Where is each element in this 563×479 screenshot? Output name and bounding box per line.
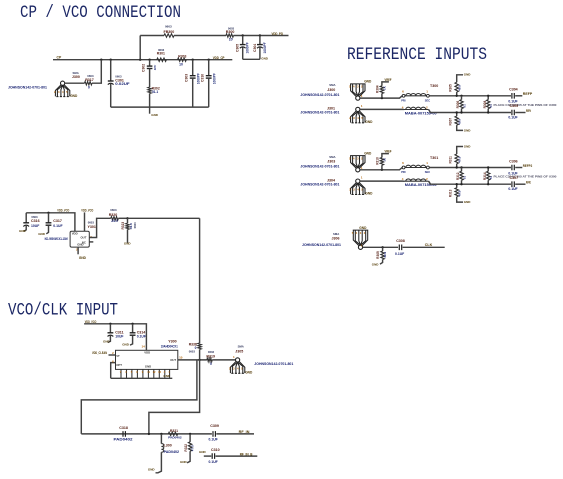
- svg-text:OPT: OPT: [116, 363, 122, 367]
- junction bottom rail at R312: [460, 183, 462, 185]
- resistor R321 (series): [168, 432, 177, 435]
- svg-text:C308: C308: [396, 239, 405, 243]
- svg-text:0.1UF: 0.1UF: [395, 252, 404, 256]
- svg-text:14: 14: [142, 345, 146, 349]
- wire RF_IN_B output: [204, 455, 212, 457]
- svg-text:JOHNSON142-0701-801: JOHNSON142-0701-801: [300, 111, 339, 115]
- svg-text:R321: R321: [170, 429, 178, 433]
- capacitor C311: [109, 324, 111, 333]
- svg-text:GND: GND: [464, 128, 472, 132]
- svg-text:GND: GND: [364, 151, 372, 155]
- svg-text:VDD_CLEAN: VDD_CLEAN: [92, 351, 107, 355]
- svg-text:SMA: SMA: [238, 344, 244, 348]
- junction at R309 tap: [381, 246, 383, 248]
- wire oscillator line to VCO section: [128, 217, 200, 219]
- svg-text:J303: J303: [327, 160, 335, 164]
- svg-text:VREF: VREF: [385, 78, 392, 82]
- capacitor C308 (series): [399, 245, 401, 251]
- junction top rail at R305: [456, 95, 458, 97]
- svg-text:R306: R306: [456, 101, 460, 109]
- IC Y300 box: [116, 350, 178, 369]
- svg-text:47.5: 47.5: [191, 445, 195, 451]
- resistor R308 (across rails): [487, 96, 489, 100]
- wire VDD_VCO rail (VCO section): [84, 324, 146, 351]
- svg-text:OUT: OUT: [81, 235, 87, 239]
- wire J300 pin1 to transformer: [360, 96, 402, 98]
- svg-text:C306: C306: [509, 159, 518, 163]
- svg-text:R310: R310: [376, 157, 380, 165]
- svg-text:T301: T301: [430, 156, 438, 160]
- wire upper branch rail middle: [174, 35, 226, 37]
- svg-text:PLACE C304/C305 AT THE PINS OF: PLACE C304/C305 AT THE PINS OF U300: [494, 104, 558, 107]
- wire R302 to bottom rail and ground stub: [149, 94, 151, 114]
- svg-text:GND: GND: [464, 144, 472, 148]
- wire OUT node down-left path B: [149, 360, 200, 434]
- junction on CP rail at top-branch riser: [139, 59, 141, 61]
- junction at OUT node: [198, 359, 200, 361]
- wire J300 pin1 to R317: [65, 82, 85, 84]
- wire C302 to R302: [149, 69, 151, 88]
- wire J301 pin1 to transformer: [360, 108, 404, 110]
- svg-text:0603: 0603: [133, 222, 137, 228]
- svg-text:51: 51: [462, 176, 466, 180]
- svg-text:JOHNSON142-0701-801: JOHNSON142-0701-801: [302, 243, 341, 247]
- resistor R319: [207, 358, 212, 361]
- resistor R317: [85, 82, 92, 85]
- svg-text:R312: R312: [456, 172, 460, 180]
- wire second VDD_VCO feed: [84, 212, 86, 231]
- svg-text:KD-9500MCX1-13M: KD-9500MCX1-13M: [45, 237, 68, 241]
- svg-text:JOHNSON142-0701-801: JOHNSON142-0701-801: [300, 182, 339, 186]
- junction bottom rail at R313: [456, 183, 458, 185]
- resistor R310 (bias): [381, 165, 383, 170]
- svg-text:R313: R313: [449, 189, 453, 197]
- svg-text:C309: C309: [210, 424, 219, 428]
- svg-text:0.1UF: 0.1UF: [508, 100, 517, 104]
- svg-text:REFERENCE INPUTS: REFERENCE INPUTS: [347, 45, 487, 65]
- svg-text:GND: GND: [148, 467, 156, 471]
- resistor R302: [148, 87, 151, 93]
- svg-text:10UF: 10UF: [31, 224, 39, 228]
- svg-text:J306: J306: [332, 237, 340, 241]
- svg-text:JOHNSON142-0701-801: JOHNSON142-0701-801: [300, 165, 339, 169]
- svg-text:51.1: 51.1: [152, 90, 158, 94]
- svg-text:VCO/CLK INPUT: VCO/CLK INPUT: [8, 301, 118, 321]
- svg-text:R300: R300: [226, 30, 235, 34]
- svg-text:GND: GND: [464, 200, 472, 204]
- svg-text:T300: T300: [430, 84, 438, 88]
- svg-text:OUT: OUT: [170, 358, 176, 362]
- wire OUT node down-left path A: [81, 360, 197, 434]
- svg-text:0.1UF: 0.1UF: [508, 116, 517, 120]
- capacitor C314: [132, 324, 134, 333]
- resistor R301 (series on CP rail): [157, 58, 167, 61]
- resistor R304 (bias): [381, 94, 383, 99]
- svg-text:C318: C318: [119, 426, 128, 430]
- svg-text:GND: GND: [145, 364, 151, 368]
- junction on CP rail at C310: [208, 59, 210, 61]
- junction on CP rail at C301: [110, 59, 112, 61]
- transformer T300: [402, 94, 405, 97]
- svg-text:0603: 0603: [165, 25, 172, 29]
- resistor R300: [226, 34, 233, 37]
- svg-text:0.1UF: 0.1UF: [137, 335, 146, 339]
- svg-text:GND: GND: [38, 232, 46, 236]
- junction at C304 tap: [259, 34, 261, 36]
- svg-text:GND: GND: [122, 342, 130, 346]
- svg-text:GND: GND: [70, 94, 78, 98]
- wire CP section ground rail: [111, 106, 209, 108]
- svg-text:GND: GND: [77, 243, 83, 247]
- svg-text:24.9: 24.9: [111, 219, 118, 223]
- wire VDD_VCO rail (oscillator): [26, 213, 75, 231]
- svg-text:Y301: Y301: [88, 225, 96, 229]
- wire J304 pin1 to transformer: [360, 180, 404, 182]
- svg-text:R305: R305: [449, 84, 453, 92]
- junction at L300 tap: [160, 433, 162, 435]
- wire ground bracket under Y300: [111, 377, 173, 379]
- svg-text:R319: R319: [206, 355, 215, 359]
- svg-text:C316: C316: [31, 219, 40, 223]
- svg-text:R320: R320: [109, 213, 118, 217]
- svg-text:1000PF: 1000PF: [246, 42, 250, 53]
- svg-text:VDD_VCO: VDD_VCO: [57, 207, 69, 212]
- svg-text:VDD: VDD: [72, 231, 78, 235]
- svg-text:0.02UF: 0.02UF: [115, 82, 129, 86]
- svg-text:C307: C307: [510, 176, 519, 180]
- resistor R309 (to ground): [382, 247, 384, 251]
- svg-text:0603: 0603: [208, 350, 215, 354]
- connector J300 (SMA, CP input): [61, 81, 65, 85]
- junction top rail at R312: [460, 166, 462, 168]
- wire Y300 OUT to J305: [178, 359, 207, 361]
- capacitor C307 (series, bottom): [512, 181, 514, 187]
- svg-text:J305: J305: [235, 349, 243, 353]
- svg-text:J300: J300: [327, 88, 335, 92]
- svg-text:0603: 0603: [189, 350, 196, 354]
- connector J300 (SMA, shell up): [356, 96, 360, 100]
- svg-text:VREF: VREF: [385, 150, 392, 154]
- transformer T301: [402, 166, 405, 169]
- wire bottom rail: [429, 181, 511, 184]
- svg-text:GND: GND: [364, 80, 372, 84]
- svg-text:VDD_PD: VDD_PD: [272, 31, 284, 36]
- svg-text:FB300: FB300: [164, 30, 175, 34]
- wire top rail: [429, 95, 511, 97]
- junction bottom rail at R307: [456, 111, 458, 113]
- svg-text:GND: GND: [464, 73, 472, 77]
- svg-text:GND: GND: [261, 57, 269, 61]
- svg-text:0.1UF: 0.1UF: [508, 171, 517, 175]
- svg-text:R314: R314: [483, 172, 487, 180]
- resistor R320: [111, 217, 119, 220]
- svg-text:REFN: REFN: [526, 109, 531, 113]
- svg-text:SMA: SMA: [333, 232, 339, 236]
- resistor R305 (top to GND): [456, 92, 458, 96]
- junction at R322 tap: [189, 433, 191, 435]
- svg-text:C317: C317: [53, 219, 62, 223]
- wire bottom rail: [429, 110, 511, 113]
- capacitor C310 output (series): [212, 453, 214, 459]
- svg-text:C310: C310: [201, 74, 205, 82]
- svg-text:51: 51: [489, 176, 493, 180]
- svg-text:C303: C303: [185, 74, 189, 82]
- connector J303 (SMA, shell up): [356, 168, 360, 172]
- svg-text:51: 51: [489, 104, 493, 108]
- svg-text:10: 10: [179, 62, 183, 66]
- junction at path-B drop: [148, 433, 150, 435]
- capacitor C309 (series): [213, 431, 215, 437]
- svg-text:CP / VCO CONNECTION: CP / VCO CONNECTION: [20, 3, 181, 23]
- capacitor C304 (series, top): [512, 93, 514, 99]
- svg-text:SMA: SMA: [329, 155, 335, 159]
- svg-text:PRI: PRI: [401, 170, 406, 174]
- wire J306 pin1 to C308: [363, 246, 398, 248]
- wire R320 to junction: [118, 217, 127, 219]
- svg-text:49.9: 49.9: [458, 85, 462, 91]
- wire riser to upper branch: [139, 36, 141, 60]
- oscillator Y301 box: [70, 231, 89, 247]
- svg-text:49.9: 49.9: [458, 190, 462, 196]
- svg-text:SEC: SEC: [425, 170, 430, 174]
- svg-text:GND: GND: [365, 192, 373, 196]
- oscillator NC stub: [89, 241, 93, 243]
- svg-text:PAD0402: PAD0402: [164, 450, 180, 454]
- resistor R306 (across rails): [461, 96, 463, 100]
- wire ground bar under C305/C304: [243, 58, 260, 60]
- svg-text:GND: GND: [124, 241, 131, 245]
- svg-text:VDD: VDD: [144, 350, 150, 354]
- svg-text:PAD0402: PAD0402: [114, 437, 133, 441]
- junction top rail at R306: [460, 95, 462, 97]
- svg-text:C310: C310: [211, 448, 220, 452]
- svg-text:0.1UF: 0.1UF: [53, 224, 62, 228]
- wire CP main rail: [53, 59, 232, 61]
- svg-text:RF_IN: RF_IN: [239, 430, 250, 434]
- svg-text:C305: C305: [236, 44, 240, 52]
- svg-text:VDD_VCO: VDD_VCO: [81, 207, 93, 212]
- svg-text:0.1UF: 0.1UF: [209, 460, 218, 464]
- svg-text:VDD_VCO: VDD_VCO: [85, 319, 97, 324]
- svg-text:VDD_CP: VDD_CP: [213, 55, 225, 60]
- resistor R322 (to ground): [189, 434, 191, 442]
- svg-text:J300: J300: [72, 75, 80, 79]
- capacitor C301: [110, 60, 112, 81]
- svg-text:GND: GND: [151, 113, 159, 117]
- pin 6 OPT wire to ground bracket: [111, 363, 116, 379]
- svg-text:51: 51: [462, 104, 466, 108]
- resistor R313 (bottom to GND): [456, 184, 458, 188]
- resistor R312 (across rails): [461, 168, 463, 172]
- svg-text:19AHD64CX1: 19AHD64CX1: [161, 345, 178, 349]
- svg-text:R307: R307: [449, 118, 453, 126]
- resistor R303 (series on CP rail): [178, 58, 187, 61]
- svg-text:L300: L300: [164, 443, 172, 447]
- svg-text:0: 0: [210, 362, 212, 366]
- resistor R338 (from oscillator line): [199, 218, 201, 343]
- svg-text:0: 0: [88, 85, 90, 89]
- connector J301 (SMA, shell down): [356, 107, 360, 111]
- junction on CP rail at C303: [192, 59, 194, 61]
- svg-text:R309: R309: [376, 251, 380, 259]
- junction at R304 tap: [381, 97, 383, 99]
- svg-text:49.9: 49.9: [458, 119, 462, 125]
- svg-text:CP: CP: [57, 56, 62, 60]
- svg-text:CLK: CLK: [425, 243, 433, 247]
- svg-text:C305: C305: [510, 104, 519, 108]
- svg-text:GND: GND: [199, 450, 207, 454]
- svg-text:R303: R303: [178, 55, 186, 59]
- capacitor C302: [149, 60, 151, 66]
- capacitor C318 (series): [123, 431, 125, 437]
- junction at C317 tap: [47, 212, 49, 214]
- svg-text:R322: R322: [184, 444, 188, 452]
- resistor R307 (bottom to GND): [456, 113, 458, 117]
- svg-text:0.1UF: 0.1UF: [209, 437, 218, 441]
- junction at C314 tap: [131, 323, 133, 325]
- capacitor C316: [25, 213, 27, 223]
- capacitor C317: [48, 213, 50, 223]
- svg-text:GND: GND: [163, 374, 171, 378]
- svg-text:GND: GND: [180, 460, 188, 464]
- svg-text:PRI: PRI: [401, 98, 406, 102]
- resistor R323 (to ground): [127, 218, 129, 223]
- junction at C311 tap: [109, 323, 111, 325]
- svg-text:PLACE C304/C305 AT THE PINS OF: PLACE C304/C305 AT THE PINS OF U300: [494, 176, 558, 179]
- wire oscillator ground pin: [77, 247, 79, 254]
- svg-text:1000PF: 1000PF: [263, 42, 267, 53]
- svg-text:VT: VT: [116, 354, 120, 358]
- capacitor C304 (decoupling): [259, 36, 261, 45]
- connector J305 (SMA, shell down): [236, 358, 240, 362]
- svg-text:R317: R317: [85, 78, 94, 82]
- wire upper branch rail right part: [234, 35, 289, 37]
- capacitor C305 (decoupling): [242, 36, 244, 45]
- svg-text:1000PF: 1000PF: [213, 73, 217, 84]
- wire VDD_CLEAN to pin 2: [109, 354, 116, 356]
- junction at R323 tap: [126, 217, 128, 219]
- capacitor C306 (series, top): [512, 165, 514, 171]
- wire J303 pin1 to transformer: [360, 168, 402, 170]
- svg-text:JOHNSON142-0701-801: JOHNSON142-0701-801: [300, 93, 339, 97]
- svg-text:GND: GND: [372, 262, 380, 266]
- junction rails at R308: [487, 95, 489, 97]
- svg-text:SMA: SMA: [329, 83, 335, 87]
- IC Y300 bottom ground pins: [121, 369, 170, 378]
- svg-text:C304: C304: [253, 44, 257, 52]
- connector J304 (SMA, shell down): [356, 179, 360, 183]
- svg-text:R301: R301: [157, 52, 165, 56]
- capacitor C305 (series, bottom): [512, 110, 514, 116]
- svg-text:R323: R323: [121, 222, 125, 230]
- resistor R311 (top to GND): [456, 164, 458, 168]
- svg-text:JOHNSON142-0701-801: JOHNSON142-0701-801: [254, 362, 293, 366]
- svg-text:GND: GND: [103, 340, 111, 344]
- svg-text:10UF: 10UF: [115, 335, 123, 339]
- svg-text:REFP: REFP: [523, 92, 533, 96]
- svg-text:10: 10: [179, 356, 183, 360]
- svg-text:C304: C304: [509, 88, 518, 92]
- junction top rail at R311: [456, 166, 458, 168]
- wire oscillator OUT to R320: [89, 218, 111, 237]
- svg-text:GND: GND: [19, 229, 27, 233]
- wire RF output rail: [81, 433, 212, 435]
- wire R317 to CP rail: [92, 60, 101, 83]
- svg-text:GND: GND: [365, 120, 373, 124]
- svg-text:REFN2: REFN2: [526, 181, 531, 185]
- junction on CP rail at C302: [148, 59, 150, 61]
- svg-text:GND: GND: [359, 226, 367, 230]
- svg-text:49.9: 49.9: [383, 251, 387, 257]
- junction rails at R314: [487, 166, 489, 168]
- svg-text:SEC: SEC: [425, 98, 430, 102]
- svg-text:Y300: Y300: [168, 339, 176, 343]
- svg-text:49.9: 49.9: [458, 156, 462, 162]
- junction at C305 tap: [242, 34, 244, 36]
- wire top rail: [429, 167, 511, 169]
- svg-text:PAD0402: PAD0402: [168, 436, 182, 440]
- junction on CP rail at R317 riser: [100, 59, 102, 61]
- capacitor C310: [208, 60, 210, 76]
- svg-text:0.1UF: 0.1UF: [508, 187, 517, 191]
- connector J306 (SMA, shell up): [358, 245, 362, 249]
- svg-text:R308: R308: [483, 101, 487, 109]
- svg-text:R304: R304: [376, 85, 380, 93]
- svg-text:JOHNSON142-0701-801: JOHNSON142-0701-801: [8, 85, 47, 89]
- svg-text:49.9: 49.9: [129, 223, 133, 229]
- svg-text:10: 10: [229, 38, 233, 42]
- svg-text:0603: 0603: [110, 208, 117, 212]
- junction bottom rail at R306: [460, 111, 462, 113]
- svg-text:RF_IN_B: RF_IN_B: [240, 453, 253, 457]
- junction at R310 tap: [381, 169, 383, 171]
- inductor L300 (to ground): [160, 434, 162, 444]
- svg-text:R311: R311: [449, 156, 453, 164]
- wire upper branch rail left part: [140, 35, 164, 37]
- capacitor C303: [192, 60, 194, 76]
- svg-text:GND: GND: [79, 256, 87, 260]
- wire R319 to connector J305: [212, 359, 235, 361]
- svg-text:GND: GND: [245, 371, 253, 375]
- svg-text:REFP2: REFP2: [523, 164, 532, 168]
- ferrite bead FB300: [164, 34, 174, 37]
- resistor R314 (across rails): [487, 168, 489, 172]
- svg-text:C302: C302: [142, 64, 146, 72]
- svg-text:1PF: 1PF: [153, 65, 157, 71]
- svg-text:0603: 0603: [88, 220, 95, 224]
